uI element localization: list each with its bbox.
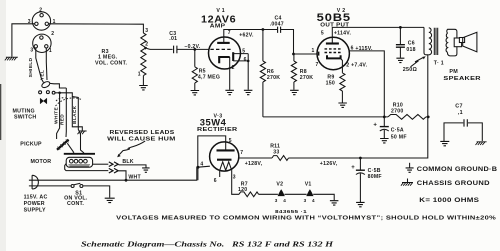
caption Schematic Diagram	[81, 240, 334, 249]
label COMMON GROUND-B	[417, 166, 498, 173]
V2 cathode lead pin 2	[341, 58, 343, 73]
wire AC neutral line	[29, 186, 110, 198]
wire R3 wiper to C3	[150, 48, 173, 50]
wire muting switch to cable (upper)	[50, 83, 67, 88]
svg-text:2: 2	[39, 8, 42, 14]
svg-text:5: 5	[229, 138, 232, 144]
label +114V	[334, 31, 352, 37]
node grid R5 junction	[193, 48, 196, 51]
label -0.2V	[184, 44, 200, 50]
label V2 heater pins 3 4	[275, 198, 286, 203]
capacitor C-5A 50 MF electrolytic	[380, 117, 389, 138]
label WHT	[128, 174, 141, 180]
svg-text:.0047: .0047	[270, 22, 284, 28]
node WHT junction	[125, 179, 128, 182]
svg-text:6: 6	[214, 178, 217, 184]
common ground (C7 left)	[440, 141, 449, 145]
chassis ground (C7 right)	[476, 142, 487, 145]
label pin 7	[240, 150, 243, 156]
svg-text:80MF: 80MF	[368, 174, 382, 180]
wire J1 pin1 to R3 top	[49, 24, 144, 33]
AC plug	[32, 175, 38, 189]
svg-text:SPEAKER: SPEAKER	[443, 76, 481, 82]
label CHASSIS GROUND	[417, 180, 490, 187]
common ground (R9)	[338, 103, 347, 107]
label YEL	[39, 70, 45, 80]
wire grid to V2	[294, 53, 318, 55]
wire heater string	[285, 193, 307, 195]
label pin 7	[316, 62, 319, 68]
chassis ground (pickup cable)	[78, 131, 87, 134]
svg-text:WHT: WHT	[128, 174, 141, 180]
node cable junction	[55, 92, 61, 95]
V2 heater	[278, 189, 285, 196]
svg-text:270K: 270K	[300, 75, 313, 81]
switch S1	[71, 183, 83, 187]
label 843655-1	[275, 209, 307, 214]
svg-text:CONT.: CONT.	[67, 201, 84, 207]
wire shield lead	[36, 48, 44, 83]
svg-text:R9: R9	[327, 74, 334, 80]
V2 cathode	[327, 55, 341, 58]
resistor R7 120	[239, 192, 278, 197]
label pin 2	[145, 41, 148, 47]
svg-text:V1: V1	[305, 181, 312, 187]
svg-text:SWITCH: SWITCH	[14, 115, 36, 121]
label SHIELD	[28, 57, 34, 77]
svg-text:4: 4	[312, 198, 315, 203]
legend chassis ground symbol	[401, 179, 413, 186]
label K=1000 OHMS	[419, 197, 479, 204]
svg-text:R11: R11	[270, 143, 280, 149]
svg-text:115V. AC: 115V. AC	[24, 194, 48, 200]
muting switch contact (arm)	[41, 80, 51, 88]
wire white lead	[57, 93, 60, 139]
svg-text:2 +7.4V.: 2 +7.4V.	[346, 62, 367, 68]
label R8 270K	[300, 69, 313, 81]
svg-text:V2: V2	[276, 181, 283, 187]
svg-text:MOTOR: MOTOR	[31, 159, 52, 165]
svg-text:VOL. CONT.: VOL. CONT.	[95, 60, 128, 66]
label BLACK	[72, 105, 78, 124]
label T-1	[434, 61, 444, 67]
svg-text:RED: RED	[60, 114, 66, 125]
wire red lead	[65, 88, 67, 137]
V3 plate lead pin 5	[198, 136, 226, 167]
label R11 33	[270, 143, 280, 155]
speaker cone PM SPEAKER	[463, 32, 477, 52]
svg-text:4: 4	[200, 162, 203, 168]
svg-text:C7: C7	[455, 103, 462, 109]
svg-text:SHIELD: SHIELD	[28, 57, 34, 77]
svg-text:2: 2	[232, 65, 235, 71]
label pin 2	[232, 65, 235, 71]
legend common ground symbol	[406, 163, 414, 173]
wire WHT to AC line	[119, 171, 126, 180]
svg-text:BLACK: BLACK	[72, 105, 78, 124]
motor	[66, 157, 92, 167]
svg-text:BLK: BLK	[122, 159, 133, 165]
wire J1 pin3 to chassis ground	[12, 24, 35, 57]
label R6 270K	[267, 69, 280, 81]
capacitor C7 .1	[444, 119, 482, 141]
label MOTOR	[31, 159, 52, 165]
svg-text:2: 2	[145, 41, 148, 47]
label +128V	[245, 161, 263, 167]
svg-text:R5: R5	[199, 68, 206, 74]
svg-text:VOLTAGES MEASURED TO COMMON: VOLTAGES MEASURED TO COMMON WIRING WITH …	[116, 216, 496, 222]
V3 pin 7 lead B+	[239, 157, 272, 159]
common ground (R3)	[139, 86, 148, 90]
label PM SPEAKER	[443, 69, 481, 82]
svg-text:843655 ·1: 843655 ·1	[275, 209, 307, 214]
common ground (V1 diode)	[244, 90, 253, 94]
common ground (C5A)	[380, 139, 389, 143]
common ground (R5)	[191, 91, 200, 95]
V2 grid tick	[318, 52, 320, 56]
label +126V	[320, 161, 338, 167]
svg-text:6: 6	[351, 45, 354, 51]
label pin 3	[233, 175, 236, 181]
svg-text:+: +	[373, 123, 377, 129]
label R3 1 MEG VOL CONT	[95, 49, 128, 66]
svg-text:+128V,: +128V,	[245, 161, 263, 167]
svg-text:WHITE: WHITE	[54, 107, 60, 124]
svg-text:2: 2	[51, 31, 54, 37]
label pin 6	[214, 178, 217, 184]
capacitor C-5B 80MF electrolytic	[356, 158, 365, 202]
tube V2 50B5 envelope	[317, 37, 349, 69]
cable dashed tie	[56, 98, 82, 106]
note voltages measured	[116, 216, 496, 222]
label pin 5	[229, 138, 232, 144]
label pin 1	[312, 48, 315, 54]
svg-text:AMP: AMP	[210, 24, 226, 30]
resistor R8 270K	[291, 54, 296, 90]
svg-text:MUTING: MUTING	[13, 108, 35, 114]
muting switch butterfly	[40, 98, 47, 104]
svg-text:+115V.: +115V.	[355, 46, 373, 52]
pickup cartridge	[57, 139, 69, 149]
common ground (AC neutral)	[105, 198, 115, 202]
svg-text:CHASSIS GROUND: CHASSIS GROUND	[417, 180, 490, 187]
svg-text:SUPPLY: SUPPLY	[24, 208, 46, 214]
svg-text:6: 6	[244, 57, 247, 63]
connector J1 input plug (top)	[28, 8, 56, 31]
svg-text:PM: PM	[449, 69, 458, 75]
common ground (C6)	[396, 58, 404, 62]
label V2 heater	[276, 181, 283, 187]
svg-text:120: 120	[238, 187, 247, 193]
svg-text:WILL CAUSE HUM: WILL CAUSE HUM	[107, 136, 176, 142]
svg-text:4: 4	[283, 198, 286, 203]
turntable record bar	[64, 153, 95, 155]
label pin 6	[244, 57, 247, 63]
V1 cathode lead pin 2	[229, 57, 231, 90]
svg-text:1: 1	[312, 48, 315, 54]
wire AC hot line	[29, 167, 197, 180]
common ground (BLK lead)	[142, 168, 150, 172]
svg-text:5: 5	[321, 30, 324, 36]
connector arrows BLK	[109, 162, 118, 167]
label pin 7	[228, 30, 231, 36]
svg-text:018: 018	[406, 47, 415, 53]
connector J2 pickup socket (bottom)	[30, 31, 54, 54]
wire R3 bottom to ground	[142, 76, 144, 86]
label pin 5	[321, 30, 324, 36]
capacitor C6 018	[396, 27, 405, 57]
label V3 35W4 RECTIFIER	[197, 114, 238, 133]
label MUTING SWITCH	[13, 108, 37, 120]
capacitor C4 .0047	[263, 27, 294, 54]
label pin 2 +7.4V	[346, 62, 367, 68]
node plate line C6 junction	[399, 26, 402, 29]
node C5B junction	[359, 157, 362, 160]
svg-text:COMMON GROUND·B: COMMON GROUND·B	[417, 166, 498, 173]
V1 grid dashes	[210, 48, 230, 50]
svg-text:T· 1: T· 1	[434, 61, 444, 67]
note REVERSED LEADS WILL CAUSE HUM	[107, 130, 176, 142]
svg-text:3: 3	[145, 28, 148, 34]
svg-text:7: 7	[240, 150, 243, 156]
tube V1 12AV6 envelope	[209, 37, 241, 69]
wire C3 to V1 grid	[177, 48, 209, 50]
wire pin4 to AC line	[197, 167, 199, 180]
svg-text:C·5A: C·5A	[391, 127, 404, 133]
svg-text:+114V.: +114V.	[334, 31, 352, 37]
V3 plate	[217, 149, 235, 151]
label pin 1	[138, 71, 141, 77]
V2 plate	[326, 42, 339, 44]
V3 pin 6 stub	[219, 170, 221, 177]
svg-text:33: 33	[273, 150, 279, 156]
V1 heater	[306, 189, 313, 196]
svg-text:7: 7	[316, 62, 319, 68]
svg-text:5: 5	[242, 48, 245, 54]
arrow to connector	[117, 141, 145, 157]
svg-text:150: 150	[326, 81, 335, 87]
page edge bar	[0, 84, 1, 140]
svg-text:1: 1	[138, 71, 141, 77]
node diode junction	[247, 60, 250, 63]
node V2 grid junction	[292, 53, 295, 56]
label C6 018	[406, 41, 415, 53]
label V2 50B5 OUTPUT	[317, 8, 351, 29]
V3 cathode bar	[217, 159, 232, 161]
svg-text:270K: 270K	[267, 75, 280, 81]
wire black lead	[72, 97, 84, 154]
resistor R11 33	[272, 156, 289, 161]
svg-text:PICKUP: PICKUP	[20, 142, 42, 148]
label RED	[60, 114, 66, 125]
transformer T1 core	[434, 28, 437, 55]
V1 plate lead pin 7	[224, 30, 263, 43]
V1 diode leads pins 5 6	[233, 54, 248, 90]
label R9 150	[326, 74, 335, 86]
connector arrows WHT	[109, 168, 118, 173]
label R5 4,7 MEG	[198, 68, 220, 80]
label C4 .0047	[270, 16, 284, 28]
V2 screen lead pin 6	[349, 51, 384, 117]
muting switch contact circles	[39, 91, 55, 95]
svg-text:RECTIFIER: RECTIFIER	[197, 127, 238, 133]
V1 plate	[217, 42, 230, 44]
node screen junction	[383, 116, 386, 119]
common ground (heater)	[330, 201, 339, 205]
label + (C5A)	[373, 123, 377, 129]
speaker voice coil	[454, 38, 464, 47]
svg-text:3: 3	[30, 48, 33, 54]
svg-text:3: 3	[275, 198, 278, 203]
label BLK	[122, 159, 133, 165]
wire motor lower lead	[65, 164, 109, 171]
svg-text:4,7 MEG: 4,7 MEG	[198, 74, 220, 80]
label pin 4	[200, 162, 203, 168]
node R10 right junction	[427, 116, 430, 119]
transformer T1 secondary	[446, 29, 457, 56]
potentiometer R3 1 MEG VOL CONT	[141, 33, 146, 76]
wire to chassis hatch	[60, 93, 83, 131]
label V1 12AV6 AMP	[201, 8, 236, 30]
label +62V	[239, 32, 254, 38]
wire BLK to ground	[119, 165, 146, 168]
label C3 .01	[169, 31, 177, 42]
label pin 3	[145, 28, 148, 34]
label R7 120	[238, 181, 248, 193]
label C7 .1	[455, 103, 463, 116]
svg-text:7: 7	[228, 30, 231, 36]
common ground (V1 cathode)	[225, 90, 234, 94]
common ground (C5B)	[356, 202, 365, 206]
V2 grid dot rows	[325, 49, 341, 53]
svg-text:250Ω: 250Ω	[403, 67, 418, 73]
svg-text:POWER: POWER	[24, 201, 45, 207]
chassis ground (input shield)	[5, 57, 18, 60]
label R10 2700	[391, 103, 404, 115]
label pin 5	[242, 48, 245, 54]
wire yellow lead	[45, 48, 48, 80]
svg-text:+126V,: +126V,	[320, 161, 338, 167]
svg-text:,1: ,1	[458, 110, 463, 116]
resistor R9 150	[340, 73, 345, 103]
V1 diode plates	[232, 52, 234, 61]
wire heater to ground	[313, 194, 334, 200]
svg-text:−0.2V.: −0.2V.	[184, 44, 200, 50]
V2 plate lead pin 5	[332, 27, 424, 43]
label C-5B 80MF	[368, 168, 382, 180]
wire motor to BLK connector	[93, 163, 109, 165]
V1 cathode	[219, 57, 230, 63]
label + (C5B)	[351, 165, 355, 171]
svg-text:3: 3	[304, 198, 307, 203]
label S1 ON VOL CONT	[64, 190, 88, 207]
resistor R10 2700	[388, 115, 428, 120]
svg-text:50 MF: 50 MF	[391, 135, 407, 141]
svg-text:YEL: YEL	[39, 70, 45, 80]
label V1 heater	[305, 181, 312, 187]
svg-text:Schematic Diagram—Chassis No.: Schematic Diagram—Chassis No. RS 132 F a…	[81, 240, 334, 249]
wire B+ rail	[263, 116, 388, 118]
label pin 6 +115V	[351, 45, 373, 52]
resistor R5 4.7 MEG	[192, 49, 197, 90]
svg-text:.01: .01	[169, 36, 177, 42]
tube V3 35W4 envelope	[210, 142, 239, 171]
wiper arrow	[144, 47, 150, 50]
svg-text:K= 1000 OHMS: K= 1000 OHMS	[419, 197, 479, 204]
V3 pin 3 lead	[232, 170, 239, 194]
V3 filament	[220, 162, 232, 171]
wire +126V rail	[289, 55, 428, 158]
node V1 plate junction	[262, 28, 265, 31]
svg-text:REVERSED LEADS: REVERSED LEADS	[110, 130, 175, 136]
label PICKUP	[20, 142, 42, 148]
svg-text:+: +	[351, 165, 355, 171]
svg-text:2700: 2700	[391, 109, 404, 115]
svg-text:C6: C6	[408, 41, 415, 47]
resistor R6 270K	[260, 30, 265, 117]
V3 pin 4 lead	[198, 166, 210, 167]
label WHITE	[54, 107, 60, 124]
svg-text:1: 1	[49, 48, 52, 54]
label C-5A 50 MF	[391, 127, 407, 140]
svg-text:3: 3	[233, 175, 236, 181]
capacitor C3 .01	[174, 46, 177, 54]
svg-text:+62V.: +62V.	[239, 32, 254, 38]
pickup needle	[67, 143, 74, 154]
transformer T1 primary	[424, 27, 432, 54]
label V1 heater pins 3 4	[304, 198, 315, 203]
label 115V AC POWER SUPPLY	[24, 194, 48, 213]
label 250 ohms with arrow	[403, 56, 426, 73]
common ground (R8)	[290, 90, 299, 94]
node pin4 junction	[196, 166, 199, 169]
